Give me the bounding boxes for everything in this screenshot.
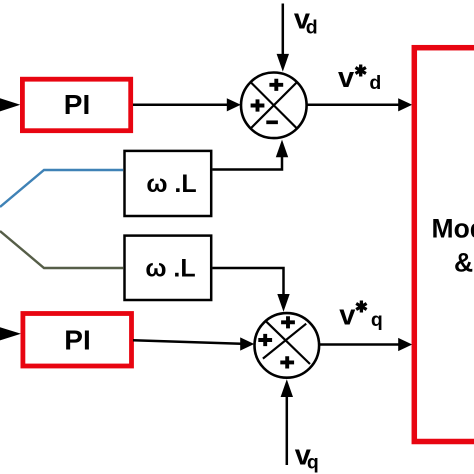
- svg-text:d: d: [369, 72, 381, 94]
- wire: ωL1 output up into S1 minus input: [213, 157, 283, 170]
- wire: q-axis error input arrow into PI2: [0, 327, 21, 340]
- svg-text:d: d: [306, 16, 318, 38]
- wire: v_q feedforward arrow up into S2: [286, 394, 289, 465]
- wire: ωL2 output down into S2 plus input: [213, 268, 284, 295]
- wire: v_d feedforward arrow down into S1: [282, 4, 285, 57]
- svg-text:v: v: [338, 62, 354, 94]
- summer S1 (d-axis): [241, 73, 307, 139]
- wire: S1 output v*_d to modulation block: [307, 104, 400, 107]
- plus sign S1 left input: [251, 99, 265, 111]
- wire: S2 output v*_q to modulation block: [319, 343, 399, 346]
- svg-text:v: v: [339, 300, 355, 332]
- svg-text:ω .L: ω .L: [145, 255, 195, 283]
- wire: PI2 output to summer S2: [133, 340, 241, 343]
- svg-text:Modulation: Modulation: [432, 213, 474, 243]
- PI controller block PI2 (q-axis): [23, 314, 132, 367]
- decoupling block ωL2: [125, 236, 212, 300]
- plus sign S1 top input: [269, 79, 283, 91]
- wire: i_d coupling signal into ωL2 (olive): [0, 231, 123, 268]
- modulation block (cut off at right edge): [414, 48, 474, 442]
- svg-text:& PWM: & PWM: [454, 247, 474, 277]
- PI controller block PI1 (d-axis): [22, 79, 130, 131]
- svg-text:q: q: [371, 309, 383, 331]
- wire: i_q coupling signal into ωL1 (blue): [0, 170, 123, 207]
- svg-text:q: q: [307, 452, 319, 474]
- wire: d-axis error input arrow into PI1: [0, 98, 20, 111]
- plus sign S2 left input: [258, 334, 272, 346]
- plus sign S2 bottom input: [280, 356, 294, 368]
- svg-text:PI: PI: [64, 325, 90, 356]
- wire: PI1 output to summer S1: [133, 104, 229, 107]
- summer S2 (q-axis): [254, 313, 319, 378]
- decoupling block ωL1: [125, 151, 212, 216]
- svg-text:ω .L: ω .L: [146, 170, 196, 198]
- minus sign S1 bottom input: [266, 120, 278, 124]
- svg-text:PI: PI: [64, 89, 90, 120]
- plus sign S2 top input: [281, 316, 295, 328]
